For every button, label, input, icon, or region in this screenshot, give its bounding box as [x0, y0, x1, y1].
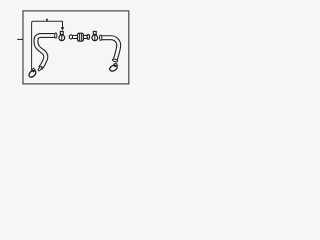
clamp C3 [108, 63, 118, 72]
clamp C2 [92, 31, 98, 40]
hose H2 [100, 35, 119, 62]
union joint [69, 33, 89, 41]
arrow [61, 27, 65, 30]
leader tick [17, 38, 23, 40]
clamp C4 [27, 68, 37, 78]
frame box [23, 11, 129, 84]
tick on pipe [46, 19, 48, 22]
clamp C1 [59, 31, 65, 40]
hose H1 [36, 33, 57, 71]
pipe [32, 21, 63, 70]
